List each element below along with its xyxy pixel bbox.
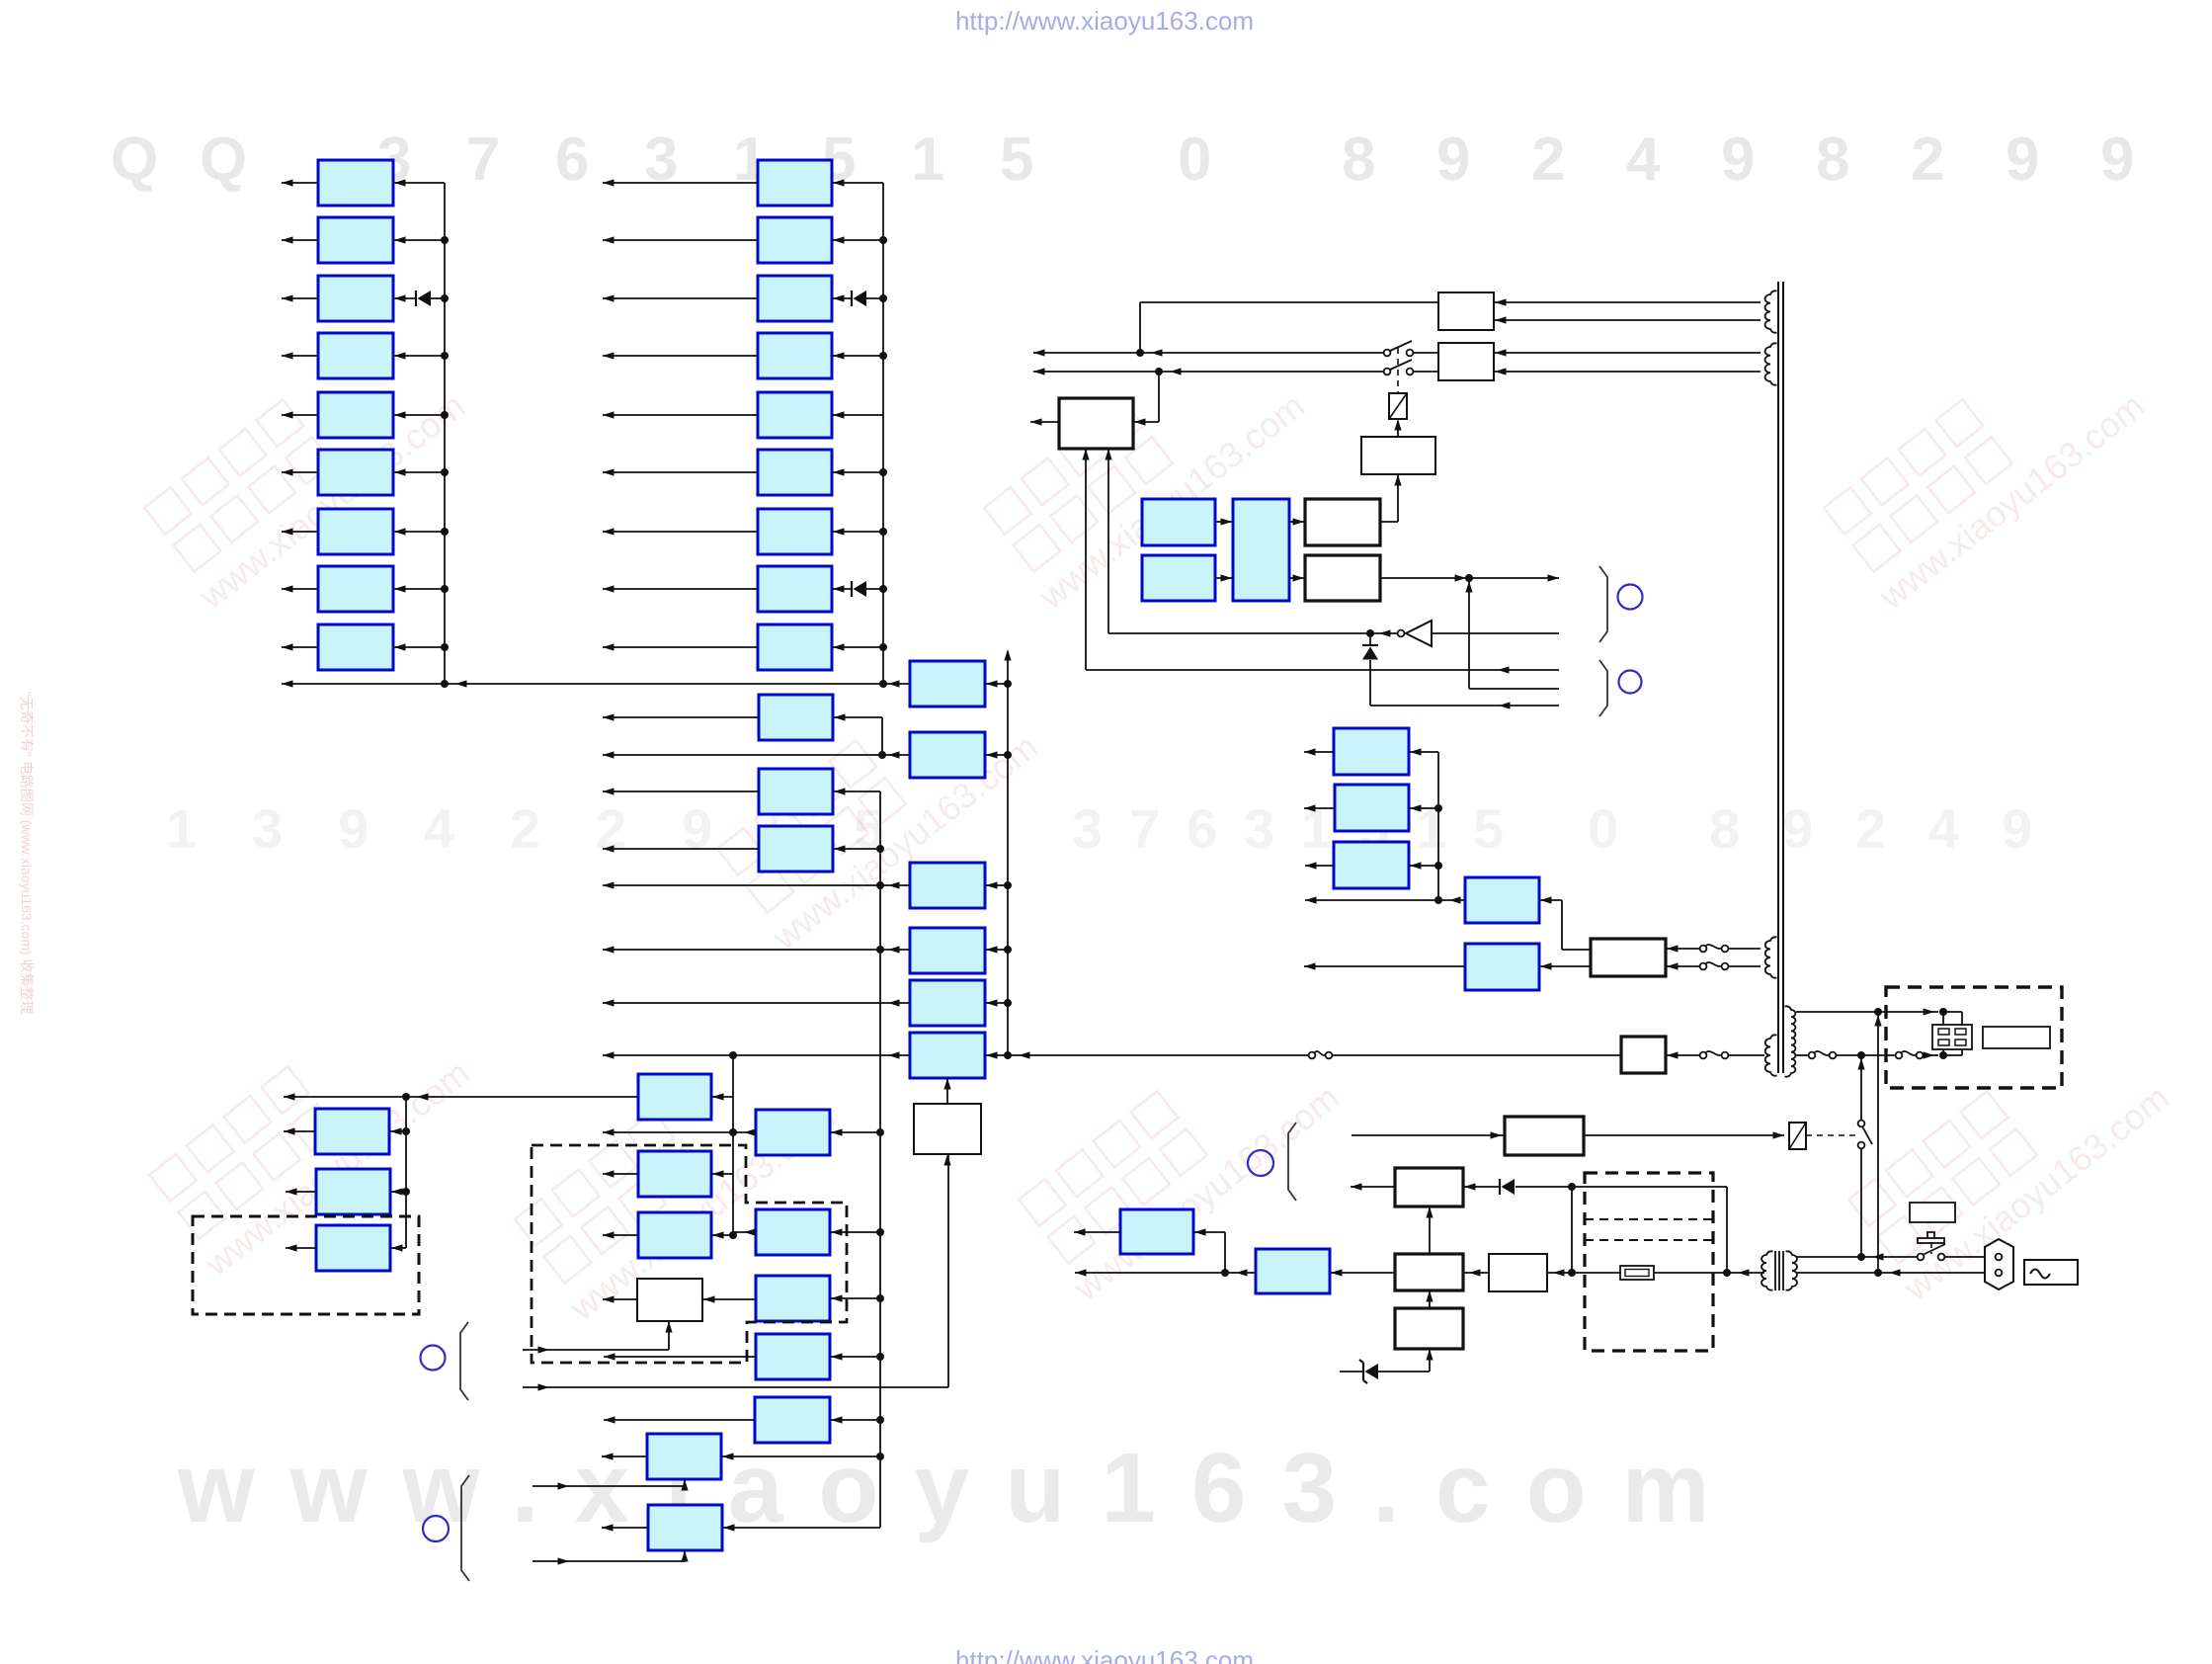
feed wire to K1 bbox=[830, 1419, 880, 1421]
junction bbox=[441, 352, 449, 360]
feed wire to C1 from vertical x=742 bbox=[711, 1096, 733, 1098]
junction bbox=[441, 585, 449, 593]
svg-text:9: 9 bbox=[1436, 125, 1470, 194]
block M1 bbox=[910, 661, 985, 707]
block E1 bbox=[756, 1110, 830, 1155]
row 961 wire to M4 bbox=[603, 949, 910, 951]
output arrow of RD1 bbox=[1304, 751, 1334, 753]
inverter input stub bbox=[1432, 632, 1559, 634]
feed wire to J2 bottom bbox=[533, 1560, 685, 1562]
vertical x=742 from row1068 to D2 row bbox=[732, 1055, 734, 1235]
junction bbox=[879, 528, 887, 536]
svg-text:1: 1 bbox=[1301, 797, 1332, 860]
output arrow of B6 bbox=[603, 471, 758, 473]
row 911 wire bbox=[1305, 899, 1465, 901]
block B6 (left column 2) bbox=[758, 450, 832, 495]
output arrow of K1 bbox=[604, 1419, 755, 1421]
wire WB5 to WB3 bbox=[1429, 1290, 1431, 1308]
block G1 bbox=[756, 1334, 830, 1379]
connector circle CN-b bbox=[423, 1516, 449, 1541]
feed wire to J2 from bus corner bbox=[722, 1527, 880, 1529]
coil 3 bbox=[1765, 937, 1777, 977]
junction of bus1 with long return line bbox=[441, 680, 449, 688]
svg-text:9: 9 bbox=[682, 797, 712, 860]
feed wire to A5 from bus bbox=[393, 414, 445, 416]
relay RL1 bbox=[1389, 393, 1407, 419]
row 1110 wire from C1 to far left bbox=[284, 1096, 638, 1098]
wire WB3 to WB2 (vertical) bbox=[1429, 1206, 1431, 1254]
T3 mains transformer core bbox=[1774, 1251, 1776, 1290]
block C1 bbox=[638, 1074, 711, 1120]
connector circle CN-c bbox=[1618, 585, 1643, 610]
block RC4 bbox=[1256, 1249, 1330, 1293]
block A6 (left column 1) bbox=[318, 450, 393, 495]
L bus vertical bbox=[405, 1097, 407, 1248]
svg-text:www.xiaoyu163.com: www.xiaoyu163.com bbox=[177, 1433, 1745, 1543]
output arrow of A1 bbox=[282, 182, 318, 184]
diode below inverter output bbox=[1369, 633, 1371, 646]
wire WN1 to WR3 bbox=[1380, 521, 1398, 523]
feed wire to RC2 bbox=[1539, 965, 1591, 967]
white box WB2 (bold) bbox=[1395, 1168, 1463, 1206]
primary tap 2 wire bbox=[1796, 1054, 1812, 1056]
primary tap 1 wire bbox=[1796, 1011, 1938, 1013]
battery label box bbox=[1910, 1203, 1955, 1222]
white box WAC (bold) bbox=[1621, 1037, 1666, 1073]
junction row1068/vert742 bbox=[729, 1051, 737, 1059]
svg-text:0: 0 bbox=[1588, 797, 1618, 860]
output arrow of A9 bbox=[282, 646, 318, 648]
feed wire to B9 from bus bbox=[832, 646, 883, 648]
stub wire 678 to WB1 bottom bbox=[1086, 669, 1559, 671]
feed wire to C2 (from row 764 junction) bbox=[833, 716, 882, 718]
block B1 (left column 2) bbox=[758, 160, 832, 206]
wire coil4 to WAC with switch bbox=[1666, 1054, 1703, 1056]
row 357 wire with switch bbox=[1033, 352, 1384, 354]
block CY3 (tall) bbox=[1233, 499, 1289, 601]
svg-text:http://www.xiaoyu163.com: http://www.xiaoyu163.com bbox=[955, 1645, 1254, 1664]
AC line P2 bbox=[1796, 1272, 1985, 1274]
T3 primary coil bbox=[1786, 1251, 1797, 1290]
vertical x=1591 bbox=[1571, 1187, 1573, 1273]
svg-text:3: 3 bbox=[252, 797, 283, 860]
output arrow of RC3 bbox=[1074, 1231, 1120, 1233]
M6 row continues right to AC switch bbox=[985, 1054, 1312, 1056]
svg-text:5: 5 bbox=[1473, 797, 1504, 860]
wire Wdeg to RL2 bbox=[1584, 1134, 1784, 1136]
inverter output wire to WB1 bottom bbox=[1108, 632, 1397, 634]
zener diode bbox=[1359, 1360, 1367, 1383]
gang dashed link to relay RL1 bbox=[1397, 348, 1399, 393]
block M3 bbox=[910, 863, 985, 908]
feed wire to B5 from bus bbox=[832, 414, 883, 416]
block A5 (left column 1) bbox=[318, 392, 393, 438]
output arrow of A4 bbox=[282, 355, 318, 357]
wire WR3 to RL1 bbox=[1397, 421, 1399, 437]
svg-text:3: 3 bbox=[1072, 797, 1103, 860]
feed wire to G1 bbox=[830, 1356, 880, 1358]
output arrow of L2 bbox=[286, 1191, 316, 1193]
output arrow of A5 bbox=[282, 414, 318, 416]
block F1 bbox=[756, 1276, 830, 1321]
dashed link RL2 to switch bbox=[1806, 1134, 1857, 1136]
block B4 (left column 2) bbox=[758, 333, 832, 378]
switch S1b bbox=[1384, 369, 1391, 375]
svg-text:9: 9 bbox=[2006, 125, 2039, 194]
block M4 bbox=[910, 928, 985, 973]
row 1288 left of RC4 bbox=[1075, 1272, 1256, 1274]
junction bbox=[879, 643, 887, 651]
block J2 bbox=[648, 1505, 722, 1550]
white box WB1 (bold) bbox=[1059, 398, 1133, 449]
svg-text:"无奇不有" 电路图网 (www.xiaoyu163.com: "无奇不有" 电路图网 (www.xiaoyu163.com) 收集整理 bbox=[19, 692, 35, 1015]
dashed region middle (stepped outline) bbox=[532, 1145, 847, 1363]
fuse bbox=[1620, 1266, 1654, 1280]
block J1 bbox=[647, 1434, 721, 1479]
junction bbox=[879, 585, 887, 593]
feed wire to A6 from bus bbox=[393, 471, 445, 473]
feed wire to B7 from bus bbox=[832, 531, 883, 533]
feed wire to L1 bbox=[389, 1130, 406, 1132]
wire WN2 output to stub (right) bbox=[1380, 577, 1559, 579]
block B3 (left column 2) bbox=[758, 276, 832, 321]
block A9 (left column 1) bbox=[318, 624, 393, 670]
block A8 (left column 1) bbox=[318, 566, 393, 612]
output arrow of RC2 bbox=[1304, 965, 1465, 967]
svg-text:9: 9 bbox=[1721, 125, 1755, 194]
feed wire to RD3 bbox=[1409, 865, 1438, 867]
svg-text:9: 9 bbox=[1782, 797, 1813, 860]
left bus 2 (vertical) bbox=[882, 183, 884, 684]
white box WB4 bbox=[1489, 1254, 1547, 1291]
white box WR2 bbox=[1438, 343, 1494, 380]
wire into Wdeg bbox=[1352, 1134, 1505, 1136]
feed wire to W2 bottom bbox=[523, 1349, 669, 1351]
diode into WB2 bbox=[1499, 1179, 1501, 1195]
white box WR3 bbox=[1361, 437, 1435, 474]
feed wire to J1 bbox=[721, 1456, 880, 1457]
output wire of E1 to junction and far left bbox=[603, 1131, 756, 1133]
feed wire to B2 from bus bbox=[832, 239, 883, 241]
wire CY3 to WN2 bbox=[1289, 577, 1305, 579]
feed wire to A1 from bus bbox=[393, 182, 445, 184]
block RD2 bbox=[1335, 785, 1409, 831]
AC source box bbox=[2024, 1260, 2078, 1285]
svg-text:3: 3 bbox=[1244, 797, 1274, 860]
block B8 (left column 2) bbox=[758, 566, 832, 612]
relay RL2 bbox=[1789, 1123, 1806, 1149]
svg-text:2: 2 bbox=[1531, 125, 1565, 194]
output arrow of B1 bbox=[603, 182, 758, 184]
wire WB4 to WB3 bbox=[1463, 1272, 1489, 1274]
M4 to bus bbox=[985, 949, 1008, 951]
junction bbox=[729, 1128, 737, 1136]
connector circle CN-d bbox=[1619, 671, 1642, 694]
block E2 bbox=[756, 1209, 830, 1255]
output arrow of L3 bbox=[286, 1247, 316, 1249]
white box WR1 bbox=[1438, 292, 1494, 330]
push button actuator bbox=[1927, 1232, 1934, 1238]
output wire of E2 bbox=[733, 1231, 756, 1233]
svg-text:8: 8 bbox=[1709, 797, 1740, 860]
block CY2 bbox=[1142, 555, 1215, 601]
block D1 bbox=[638, 1151, 711, 1197]
vertical to RC3 bbox=[1224, 1232, 1226, 1273]
brace for W feeds bbox=[460, 1322, 468, 1400]
feed wire to A4 from bus bbox=[393, 355, 445, 357]
output arrow of B7 bbox=[603, 531, 758, 533]
M5 to bus bbox=[985, 1002, 1008, 1004]
feed wire to B3 from bus bbox=[866, 297, 883, 299]
left bus 1 (vertical) bbox=[444, 183, 446, 684]
vertical from T3 junction up to row 1201 bbox=[1726, 1187, 1728, 1273]
vertical from tap1 down to P2 bbox=[1877, 1012, 1879, 1272]
dashed partition 1 bbox=[1585, 1218, 1713, 1220]
block C2 bbox=[759, 695, 833, 740]
white box WN1 (bold) bbox=[1305, 499, 1380, 545]
dashed battery box bbox=[1585, 1173, 1713, 1351]
stub wire 697 bbox=[1469, 688, 1559, 690]
white box W1 bbox=[914, 1104, 981, 1154]
brace for J feeds bbox=[461, 1475, 469, 1581]
white box WB5 (bold) bbox=[1395, 1308, 1463, 1349]
junction bbox=[879, 294, 887, 302]
output arrow of A6 bbox=[282, 471, 318, 473]
wire coil1b to WR1 bbox=[1494, 319, 1761, 321]
output arrow of W2 bbox=[603, 1298, 637, 1300]
feed wire to A7 from bus bbox=[393, 531, 445, 533]
output arrow of RD3 bbox=[1305, 865, 1334, 867]
brace output group 2 bbox=[1599, 660, 1607, 716]
svg-text:8: 8 bbox=[1816, 125, 1849, 194]
junction bbox=[441, 528, 449, 536]
block D2 bbox=[638, 1212, 711, 1258]
white box WB3 (bold) bbox=[1395, 1254, 1463, 1290]
block B5 (left column 2) bbox=[758, 392, 832, 438]
wire CY3 to WN1 bbox=[1289, 521, 1305, 523]
svg-text:5: 5 bbox=[1000, 125, 1033, 194]
svg-text:Q: Q bbox=[111, 125, 158, 194]
block A4 (left column 1) bbox=[318, 333, 393, 378]
block A3 (left column 1) bbox=[318, 276, 393, 321]
block M6 bbox=[910, 1033, 985, 1078]
block B2 (left column 2) bbox=[758, 217, 832, 263]
output arrow of WB2 bbox=[1351, 1186, 1395, 1188]
feed wire to RC1 from WRB (jog) bbox=[1539, 899, 1562, 901]
white box WF1 (cord label) bbox=[1983, 1027, 2050, 1048]
output arrow of B4 bbox=[603, 355, 758, 357]
wire to WB4 bbox=[1547, 1272, 1572, 1274]
junction bbox=[729, 1231, 737, 1239]
wire coil2b to WR2 bbox=[1494, 371, 1761, 373]
dashed box around L3 bbox=[193, 1216, 419, 1314]
svg-text:2: 2 bbox=[1911, 125, 1944, 194]
switch SW-P1 bbox=[1918, 1254, 1925, 1261]
M2 to bus bbox=[985, 754, 1008, 756]
brace near CN-e bbox=[1288, 1123, 1296, 1201]
row 764 wire to M2 bbox=[603, 754, 910, 756]
output arrow of A2 bbox=[282, 239, 318, 241]
feed wire to RC3 bbox=[1193, 1231, 1225, 1233]
dashed partition 2 bbox=[1585, 1239, 1713, 1241]
junction bbox=[879, 352, 887, 360]
svg-text:4: 4 bbox=[1928, 797, 1959, 860]
white box W2 bbox=[637, 1279, 702, 1321]
wire CY1 to CY3 bbox=[1215, 521, 1233, 523]
output arrow of J2 bbox=[602, 1527, 648, 1529]
block A1 (left column 1) bbox=[318, 160, 393, 206]
output arrow of C2 bbox=[603, 716, 759, 718]
coil 4 bbox=[1765, 1035, 1777, 1075]
feed wire to J1 bottom bbox=[533, 1485, 685, 1487]
junction bbox=[876, 845, 884, 853]
feed wire to RD2 bbox=[1409, 807, 1438, 809]
feed wire to C3 from vertical x=891 bbox=[833, 790, 880, 792]
output arrow of J1 bbox=[602, 1456, 647, 1457]
wire W1 to M6 bbox=[946, 1078, 948, 1104]
wire coil2a to WR2 bbox=[1494, 352, 1761, 354]
feed wire to D2 bbox=[711, 1234, 733, 1236]
block C4 bbox=[759, 826, 833, 872]
svg-text:6: 6 bbox=[1187, 797, 1217, 860]
block L3 bbox=[316, 1225, 390, 1271]
block M5 bbox=[910, 980, 985, 1026]
output arrow of D1 bbox=[603, 1173, 638, 1175]
wire from diode to stub 714 bbox=[1369, 660, 1371, 706]
switch on M6 row bbox=[1309, 1052, 1316, 1059]
svg-text:2: 2 bbox=[1855, 797, 1886, 860]
coil 1 (top secondary) bbox=[1765, 291, 1777, 332]
output arrow of B9 bbox=[603, 646, 758, 648]
white box Wdeg (bold) bbox=[1505, 1117, 1584, 1155]
long vertical bus x=891 bbox=[879, 791, 881, 1528]
wire CY2 to CY3 bbox=[1215, 577, 1233, 579]
primary coil (right of core) bbox=[1785, 1006, 1796, 1076]
feed wire to B1 from bus bbox=[832, 182, 883, 184]
block RC2 bbox=[1465, 944, 1539, 990]
output arrow of G1 (long) bbox=[604, 1356, 756, 1358]
feed wire to RD1 bbox=[1409, 751, 1438, 753]
white box WRB (bold) bbox=[1591, 939, 1666, 976]
svg-text:2: 2 bbox=[510, 797, 540, 860]
T3 secondary coil bbox=[1761, 1251, 1772, 1290]
white box WN2 (bold) bbox=[1305, 555, 1380, 601]
inverter gate bbox=[1406, 621, 1432, 646]
output arrow of B5 bbox=[603, 414, 758, 416]
connector circle CN-a bbox=[421, 1346, 446, 1371]
M3 to bus bbox=[985, 884, 1008, 886]
output arrow of WB1 bbox=[1030, 421, 1059, 423]
feed wire to F1 bbox=[830, 1297, 880, 1299]
block RD1 bbox=[1334, 728, 1409, 775]
wire coil3b to WRB with switch bbox=[1666, 965, 1703, 967]
long return wire y=692 from M1 to far left bbox=[282, 683, 910, 685]
output arrow of A3 bbox=[282, 297, 318, 299]
vertical from tap2 down through standby switch to P1 bbox=[1860, 1055, 1862, 1121]
row 896 wire to M3 bbox=[603, 884, 910, 886]
svg-text:4: 4 bbox=[424, 797, 454, 860]
svg-text:Q: Q bbox=[200, 125, 247, 194]
block L2 bbox=[316, 1169, 390, 1214]
block A2 (left column 1) bbox=[318, 217, 393, 263]
row 1201 wire bbox=[1516, 1186, 1727, 1188]
zener line into WB5 bbox=[1340, 1371, 1363, 1373]
feed wire to W1 bottom (long) bbox=[523, 1386, 948, 1388]
output arrow of A7 bbox=[282, 531, 318, 533]
block C3 bbox=[759, 769, 833, 814]
svg-text:0: 0 bbox=[1178, 125, 1211, 194]
switch S1a bbox=[1384, 350, 1391, 357]
feed wire to B6 from bus bbox=[832, 471, 883, 473]
AC inlet connector block bbox=[1932, 1025, 1972, 1049]
feed wire to L3 bbox=[390, 1247, 406, 1249]
svg-text:4: 4 bbox=[1626, 125, 1661, 194]
feed wire to B4 from bus bbox=[832, 355, 883, 357]
junction bbox=[441, 643, 449, 651]
svg-text:9: 9 bbox=[2002, 797, 2032, 860]
vertical x=1456 bbox=[1437, 752, 1439, 900]
M bus vertical x=1020 with up arrow bbox=[1007, 651, 1009, 1055]
feed wire to E1 bbox=[830, 1131, 880, 1133]
feed wire to D1 bbox=[711, 1173, 733, 1175]
block A7 (left column 1) bbox=[318, 509, 393, 554]
svg-text:6: 6 bbox=[555, 125, 589, 194]
junction bbox=[441, 236, 449, 244]
wire WB3 to RC4 bbox=[1330, 1272, 1395, 1274]
power plug bbox=[1985, 1239, 2013, 1290]
feed wire to A8 from bus bbox=[393, 588, 445, 590]
output arrow of C4 bbox=[603, 848, 759, 850]
row 1068 wire to M6 bbox=[603, 1054, 910, 1056]
feed wire to C4 bbox=[833, 848, 880, 850]
junction of bus2 with long return line bbox=[879, 680, 887, 688]
svg-text:http://www.xiaoyu163.com: http://www.xiaoyu163.com bbox=[955, 6, 1254, 36]
transformer core (double line) bbox=[1777, 282, 1779, 1073]
junction bbox=[441, 411, 449, 419]
feed wire to B8 from bus bbox=[866, 588, 883, 590]
connector circle CN-e bbox=[1248, 1150, 1273, 1176]
block RD3 bbox=[1334, 842, 1409, 888]
block RC3 bbox=[1120, 1209, 1193, 1254]
block K1 bbox=[755, 1397, 830, 1443]
coil 2 bbox=[1765, 343, 1777, 384]
brace output group 1 bbox=[1599, 566, 1607, 642]
tap2 into connector bbox=[1942, 1049, 1944, 1055]
M1 to bus bbox=[985, 683, 1008, 685]
dashed box AC inlet bbox=[1886, 987, 2062, 1088]
output arrow of D2 bbox=[603, 1234, 638, 1236]
AC line P1 bbox=[1796, 1256, 1921, 1258]
svg-text:1: 1 bbox=[911, 125, 944, 194]
standby switch (vertical) bbox=[1858, 1121, 1865, 1127]
wire T3 secondary output bbox=[1727, 1272, 1764, 1274]
feed wire W2 from F1 bbox=[702, 1298, 756, 1300]
feed wire to E2 bbox=[830, 1231, 880, 1233]
output arrow of B8 bbox=[603, 588, 758, 590]
svg-text:7: 7 bbox=[1129, 797, 1160, 860]
output arrow of B3 bbox=[603, 297, 758, 299]
svg-text:8: 8 bbox=[1342, 125, 1375, 194]
junction bbox=[879, 468, 887, 476]
junction bbox=[441, 294, 449, 302]
svg-text:1: 1 bbox=[166, 797, 197, 860]
block RC1 bbox=[1465, 877, 1539, 923]
output arrow of RD2 bbox=[1304, 807, 1335, 809]
svg-text:7: 7 bbox=[466, 125, 500, 194]
block B7 (left column 2) bbox=[758, 509, 832, 554]
feed wire to WB1 from row376 bbox=[1158, 372, 1160, 422]
feed wire to A2 from bus bbox=[393, 239, 445, 241]
